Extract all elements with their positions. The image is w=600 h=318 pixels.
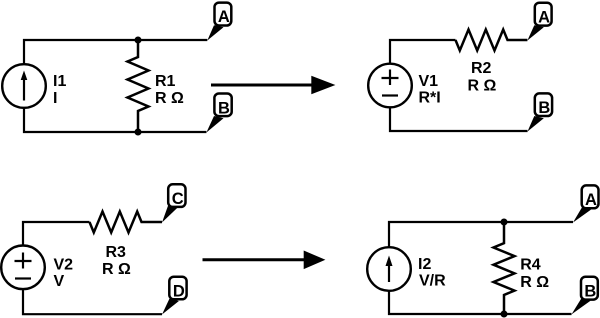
svg-text:R1: R1 xyxy=(155,73,176,90)
svg-text:R Ω: R Ω xyxy=(520,274,549,291)
svg-text:R2: R2 xyxy=(471,60,492,77)
svg-text:R3: R3 xyxy=(106,244,127,261)
resistor R2 xyxy=(456,30,528,51)
resistor R3 xyxy=(90,212,163,233)
terminal B (top-right) xyxy=(528,93,553,131)
wire bottom-right circuit top: I2 to node A xyxy=(389,222,573,247)
junction dot bottom of R4 xyxy=(501,311,508,318)
current source I2 xyxy=(367,247,411,291)
transformation arrow top xyxy=(211,76,335,95)
wire bottom-right circuit bottom: I2 to node B xyxy=(389,291,572,314)
wire top-left circuit bottom: I1 to node B xyxy=(24,108,206,132)
terminal A (top-right) xyxy=(527,3,551,41)
svg-text:R Ω: R Ω xyxy=(102,261,131,278)
voltage source V1 xyxy=(368,64,412,108)
terminal B (top-left) xyxy=(206,94,231,133)
wire top-right circuit top: V1 to R2 xyxy=(390,40,456,64)
terminal A (top-left) xyxy=(207,3,231,41)
wire bottom-left circuit bottom: V2 to node D xyxy=(23,289,162,314)
svg-text:B: B xyxy=(584,282,596,300)
wire top-right circuit bottom: V1 to node B xyxy=(390,107,528,131)
svg-text:A: A xyxy=(218,8,230,26)
wire bottom-left circuit top: V2 to R3 xyxy=(23,222,90,246)
junction dot top of R4 xyxy=(501,219,508,226)
svg-text:V2: V2 xyxy=(54,257,74,274)
svg-text:A: A xyxy=(585,191,597,209)
svg-text:B: B xyxy=(218,99,230,117)
svg-text:V: V xyxy=(54,273,65,290)
resistor R4 xyxy=(494,222,515,314)
wire top-left circuit top: I1 to node A xyxy=(24,40,207,64)
svg-text:I2: I2 xyxy=(418,256,431,273)
svg-text:B: B xyxy=(538,99,550,117)
svg-text:V1: V1 xyxy=(419,73,439,90)
svg-text:I: I xyxy=(53,90,57,107)
svg-text:R Ω: R Ω xyxy=(155,90,184,107)
svg-text:D: D xyxy=(173,283,185,301)
svg-text:R4: R4 xyxy=(520,257,541,274)
terminal D (bottom-left) xyxy=(162,277,187,315)
svg-text:C: C xyxy=(172,190,184,208)
junction dot top of R1 xyxy=(135,37,142,44)
resistor R1 xyxy=(128,40,149,132)
transformation arrow bottom xyxy=(203,251,326,270)
terminal C (bottom-left) xyxy=(162,184,186,222)
terminal A (bottom-right) xyxy=(573,185,599,222)
junction dot bottom of R1 xyxy=(135,129,142,136)
svg-text:R Ω: R Ω xyxy=(468,78,497,95)
svg-text:I1: I1 xyxy=(53,73,66,90)
voltage source V2 xyxy=(1,245,45,289)
svg-text:V/R: V/R xyxy=(419,273,446,290)
current source I1 xyxy=(2,64,46,108)
svg-text:A: A xyxy=(538,8,550,26)
svg-text:R*I: R*I xyxy=(419,90,441,107)
terminal B (bottom-right) xyxy=(572,277,598,315)
